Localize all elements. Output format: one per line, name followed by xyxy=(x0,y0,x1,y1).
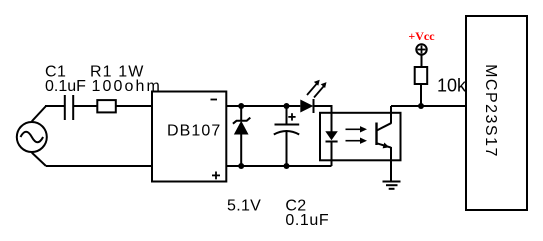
resistor 10k xyxy=(415,67,428,84)
wire source top diagonal xyxy=(32,106,46,121)
node zener bottom xyxy=(238,163,244,169)
optocoupler internal LED xyxy=(325,112,338,166)
node C2 top xyxy=(284,103,290,109)
pin minus sign xyxy=(211,99,218,101)
AC source V1 xyxy=(17,122,47,152)
power symbol circle plus xyxy=(416,44,426,54)
wire DB107 minus output bottom rail xyxy=(226,165,331,167)
ground xyxy=(383,182,401,189)
zener diode 5.1V xyxy=(233,106,250,166)
emitter arrow xyxy=(383,143,390,149)
wire DB107 plus output top rail xyxy=(226,105,300,107)
C2 plus polarity mark xyxy=(288,113,295,120)
svg-text:MCP23S17: MCP23S17 xyxy=(482,64,499,158)
node collector resistor junction xyxy=(418,103,424,109)
wire node to MCP23S17 xyxy=(421,105,466,107)
pin plus sign xyxy=(212,172,220,180)
wire bottom rail source to DB107 xyxy=(46,165,152,167)
capacitor C1 xyxy=(65,95,73,120)
capacitor C2 polarized xyxy=(274,106,299,166)
optocoupler U1 box xyxy=(320,113,401,161)
svg-text:DB107: DB107 xyxy=(167,123,221,140)
wire resistor to node xyxy=(420,84,422,106)
wire Vcc to resistor xyxy=(421,56,423,68)
node C2 bottom xyxy=(284,163,290,169)
svg-text:5.1V: 5.1V xyxy=(227,198,261,215)
IC U2 MCP23S17 xyxy=(466,16,527,210)
wire LED to optocoupler input xyxy=(314,106,332,113)
optocoupler light arrows xyxy=(346,129,362,140)
svg-text:+Vcc: +Vcc xyxy=(408,29,435,43)
wire top rail to C1 xyxy=(45,105,65,107)
wire collector to node xyxy=(391,105,421,107)
wire C1 to R1 xyxy=(73,105,97,107)
phototransistor Q1 xyxy=(377,106,392,181)
wire source bottom diagonal xyxy=(32,153,46,166)
svg-text:10k: 10k xyxy=(437,75,467,95)
svg-text:0.1uF: 0.1uF xyxy=(285,212,329,229)
LED D1 xyxy=(300,99,313,113)
LED emission arrows xyxy=(307,83,325,98)
wire R1 to DB107 xyxy=(116,105,152,107)
svg-text:0.1uF: 0.1uF xyxy=(45,78,86,95)
node zener top xyxy=(238,103,244,109)
resistor R1 xyxy=(97,100,116,112)
bridge rectifier DB107 xyxy=(152,92,226,182)
